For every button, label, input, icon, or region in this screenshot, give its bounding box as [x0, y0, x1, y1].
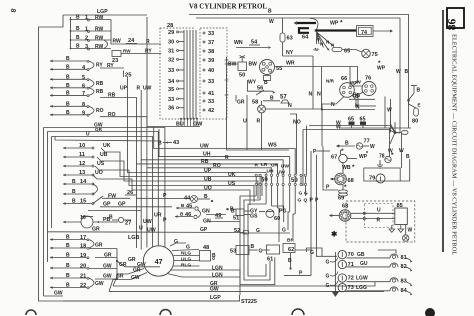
label row 11 — [79, 152, 85, 158]
svg-text:2: 2 — [85, 36, 88, 42]
component 78 — [379, 152, 394, 163]
wire NLG — [174, 251, 200, 257]
wire G 62 right — [295, 248, 322, 256]
svg-text:B: B — [72, 189, 76, 195]
svg-text:GS: GS — [250, 214, 258, 220]
component 77 — [336, 139, 375, 151]
wire row 14b — [63, 189, 94, 195]
svg-text:BW: BW — [249, 62, 258, 68]
label row 5 — [66, 74, 85, 81]
svg-text:N: N — [288, 103, 292, 109]
component 79 box — [364, 168, 400, 183]
svg-text:B: B — [66, 263, 70, 269]
svg-text:19: 19 — [80, 253, 86, 259]
label UP R UW verticals — [120, 86, 152, 92]
svg-text:WS: WS — [268, 143, 277, 149]
wire row RW 3 — [70, 48, 111, 50]
svg-text:G: G — [326, 283, 330, 289]
fuse left 35@88.8 — [168, 87, 184, 93]
svg-text:WY: WY — [248, 80, 257, 86]
component 46 — [175, 209, 211, 225]
component cap right — [402, 131, 409, 135]
wire GW 21 right — [95, 274, 117, 280]
wire LGP long — [63, 300, 240, 302]
fuse left 36@107.7 — [168, 106, 184, 112]
wire row 20 — [50, 267, 89, 270]
label U UW — [139, 213, 167, 234]
wire bus R2 — [141, 90, 283, 250]
svg-text:74: 74 — [361, 30, 367, 36]
svg-text:U: U — [243, 119, 247, 125]
fuse left 32@59.4 — [168, 57, 184, 63]
wire row 5 left — [50, 78, 89, 81]
svg-text:G: G — [282, 228, 286, 234]
sidebar vertical caption — [451, 34, 458, 255]
nest return 1 — [240, 196, 275, 285]
wire row RW 0 — [70, 19, 111, 21]
svg-text:B: B — [204, 194, 208, 200]
ground senders — [331, 291, 339, 297]
dashed box 85 — [346, 201, 415, 242]
label fuse 28 — [167, 23, 173, 29]
component 27 — [109, 215, 131, 227]
wire row 15 — [63, 199, 94, 205]
label row 18 — [66, 243, 86, 250]
svg-text:27: 27 — [125, 221, 131, 227]
svg-text:51: 51 — [233, 216, 239, 222]
wire fusebox bottom line — [147, 126, 200, 128]
fusebox bus v0 — [183, 30, 185, 119]
wire U bus left — [52, 132, 153, 247]
svg-text:B: B — [264, 80, 268, 86]
wire W line 2 — [303, 125, 395, 133]
component 68a — [330, 173, 354, 191]
svg-text:73: 73 — [348, 285, 354, 291]
svg-text:33: 33 — [208, 79, 214, 85]
wire bus UO — [93, 170, 250, 205]
label row 10 — [79, 143, 85, 149]
fuse right 41@93 — [203, 91, 214, 97]
svg-text:64: 64 — [302, 35, 309, 41]
svg-text:22: 22 — [80, 283, 86, 289]
component 53 — [230, 244, 270, 255]
component 57 — [280, 95, 289, 104]
svg-text:UR: UR — [271, 163, 278, 169]
fusebox left dashed box — [160, 28, 193, 119]
svg-text:39: 39 — [208, 58, 214, 64]
fuse right 33@101 — [203, 99, 214, 105]
svg-text:GR: GR — [95, 127, 103, 132]
label WP star 1 — [377, 60, 386, 72]
svg-text:21: 21 — [80, 274, 86, 280]
label row 13 — [79, 170, 85, 176]
svg-text:UR: UR — [154, 213, 162, 219]
fusebox bus v4 — [195, 30, 197, 119]
hump RO3 — [89, 106, 104, 115]
fusebox left outer vertical — [146, 17, 148, 127]
component 68b — [329, 204, 351, 222]
svg-text:31: 31 — [168, 49, 174, 55]
svg-text:11: 11 — [79, 152, 85, 158]
nest return 6 — [288, 212, 290, 230]
svg-text:34: 34 — [168, 79, 175, 85]
wire N bottom — [322, 104, 375, 110]
label row 19 — [66, 253, 86, 260]
wire B drop right — [408, 100, 410, 128]
wire P left 69 — [323, 147, 339, 191]
label RW 24 — [113, 38, 138, 45]
component 55 cap — [264, 76, 271, 87]
svg-text:B: B — [66, 253, 70, 259]
inner dashed U R — [364, 204, 393, 228]
label row RW 0 — [76, 15, 104, 22]
fuse right 42@110 — [203, 108, 214, 114]
svg-text:R: R — [257, 119, 261, 125]
bottom arc mark 2 — [160, 310, 171, 316]
label 59 pins top — [255, 162, 290, 176]
svg-text:LGW: LGW — [356, 276, 368, 282]
svg-text:LGB: LGB — [128, 235, 139, 241]
component 45 — [176, 203, 198, 210]
svg-text:75: 75 — [372, 52, 378, 58]
wire N vertical 3 — [317, 67, 322, 110]
wire RW collector — [111, 20, 161, 45]
hump RB2 — [89, 88, 104, 96]
svg-text:GW: GW — [95, 281, 104, 287]
svg-text:53: 53 — [230, 249, 236, 255]
svg-text:B: B — [76, 15, 80, 21]
wire P drop — [313, 149, 330, 155]
bottom-right dot — [425, 308, 435, 316]
svg-text:B: B — [76, 35, 80, 41]
ground arrow 2 — [398, 225, 404, 232]
svg-text:LR: LR — [261, 162, 268, 168]
connector 25 — [124, 71, 133, 79]
svg-text:8: 8 — [82, 102, 85, 108]
label WS — [268, 143, 277, 149]
svg-text:NY: NY — [286, 50, 294, 56]
svg-text:43: 43 — [173, 140, 179, 146]
label row 20 — [66, 263, 86, 270]
label asterisk — [331, 230, 338, 239]
svg-text:RW: RW — [123, 49, 131, 54]
svg-text:B: B — [66, 235, 70, 241]
svg-text:B: B — [66, 64, 70, 70]
wire row 11 — [63, 156, 94, 159]
svg-text:UW: UW — [200, 144, 209, 150]
label BU — [176, 122, 184, 128]
svg-text:UB: UB — [100, 152, 108, 158]
svg-text:B: B — [66, 101, 70, 107]
wire GW bottom-left — [44, 291, 64, 297]
label row 12 — [79, 161, 85, 167]
bottom arc mark 1 — [26, 310, 36, 315]
wire row 9 left — [50, 113, 89, 116]
component 85 box — [395, 203, 408, 225]
svg-text:WR: WR — [286, 61, 295, 67]
label row 6 — [66, 83, 85, 90]
svg-text:G: G — [310, 250, 314, 256]
wire GN lines — [206, 215, 240, 222]
label row a — [66, 56, 70, 62]
svg-text:U: U — [86, 132, 90, 138]
wire WS box — [225, 57, 262, 150]
component 51 — [231, 209, 250, 222]
fuse right 40@70 — [203, 68, 214, 74]
svg-text:RB: RB — [108, 93, 116, 99]
connector 26 — [125, 190, 136, 196]
svg-text:33: 33 — [168, 68, 174, 74]
wire 74 arrow — [373, 29, 393, 32]
svg-text:GR: GR — [116, 274, 124, 280]
svg-text:81: 81 — [401, 255, 407, 261]
sidebar rule — [442, 10, 444, 252]
svg-text:RO: RO — [96, 108, 104, 114]
svg-text:50: 50 — [239, 73, 245, 79]
svg-text:RLG: RLG — [181, 263, 191, 269]
wire bus UP — [128, 77, 267, 174]
svg-text:62: 62 — [288, 247, 294, 253]
wire 81 top feed — [378, 250, 396, 254]
svg-text:U: U — [139, 226, 143, 232]
svg-text:LGP: LGP — [210, 295, 221, 301]
label W B verticals — [396, 69, 409, 75]
svg-text:GW: GW — [103, 264, 112, 270]
sender hooks — [330, 258, 338, 286]
svg-text:B: B — [66, 83, 70, 89]
svg-text:R: R — [255, 163, 259, 169]
svg-text:RB: RB — [96, 81, 104, 87]
label row RW 2 — [76, 35, 104, 42]
svg-text:76: 76 — [365, 76, 371, 82]
svg-text:B: B — [66, 273, 70, 279]
label 59 left — [261, 178, 268, 184]
label row 17 — [66, 235, 86, 242]
svg-text:UW: UW — [143, 219, 152, 225]
wire B 57 — [263, 96, 280, 102]
wire bus RB — [100, 93, 278, 249]
hump 17-18 GR — [89, 240, 103, 249]
svg-text:1: 1 — [85, 15, 88, 21]
wire bus UH — [159, 129, 290, 174]
svg-text:10: 10 — [79, 143, 85, 149]
wire RY from 23 — [121, 49, 161, 55]
label W mid right — [387, 108, 392, 114]
fuse left 33@70 — [168, 68, 184, 74]
component 64 pivot — [302, 19, 318, 41]
corner mark top-left — [9, 8, 17, 13]
wire bus UW — [154, 127, 296, 175]
wire LGP top — [63, 14, 147, 16]
svg-text:R: R — [137, 86, 141, 92]
component 60 — [259, 209, 287, 222]
fuse left 33@98.8 — [168, 97, 184, 103]
bottom arc mark 3 — [292, 309, 304, 315]
svg-text:G: G — [186, 245, 190, 251]
wire LGN2 — [167, 272, 240, 278]
wire U to 85 — [351, 207, 395, 214]
wire U vertical — [243, 95, 247, 150]
svg-text:LGN: LGN — [212, 272, 223, 278]
svg-text:3: 3 — [85, 44, 88, 50]
label WB star — [342, 164, 355, 171]
svg-text:77: 77 — [364, 139, 370, 145]
svg-text:G: G — [298, 198, 302, 204]
svg-text:B: B — [270, 96, 274, 102]
svg-text:86: 86 — [447, 19, 459, 31]
fuse right 37@42 — [203, 40, 214, 46]
connector G pins — [300, 174, 307, 185]
svg-text:P: P — [163, 193, 167, 199]
svg-text:B: B — [355, 94, 359, 100]
lamp 81 — [390, 254, 413, 263]
svg-text:B: B — [231, 209, 235, 215]
sidebar page number 86 box — [447, 8, 465, 30]
lamp 84 — [390, 287, 413, 296]
wire 58 up — [261, 101, 263, 105]
component 66 — [326, 76, 362, 108]
wire GW 20 right — [89, 264, 117, 270]
wire lamp 82 — [347, 266, 391, 268]
svg-text:BW: BW — [228, 62, 237, 68]
svg-text:✱: ✱ — [331, 230, 338, 239]
label N fan — [313, 37, 335, 52]
svg-text:W: W — [370, 144, 375, 150]
svg-text:45: 45 — [186, 203, 192, 209]
svg-text:ULG: ULG — [181, 257, 191, 263]
wire NO drop 3 — [306, 126, 307, 197]
wire 67-68 vertical — [341, 150, 344, 173]
svg-text:GP: GP — [118, 202, 126, 208]
svg-text:83: 83 — [401, 279, 407, 285]
frame vertical 3 — [47, 132, 49, 263]
svg-text:33: 33 — [208, 31, 214, 37]
wire row 22 — [50, 286, 89, 289]
svg-text:WP: WP — [350, 80, 357, 85]
component 62 — [283, 238, 295, 254]
svg-text:US: US — [97, 161, 105, 167]
label LGP — [97, 9, 108, 15]
component 61 — [267, 245, 280, 263]
fuse right 33@81 — [203, 79, 214, 85]
svg-text:48: 48 — [203, 245, 209, 251]
svg-text:LGN: LGN — [212, 265, 223, 271]
svg-text:N: N — [331, 102, 335, 108]
wire BW left — [227, 63, 238, 65]
hump rows 2-3 — [104, 40, 108, 49]
svg-text:W: W — [269, 19, 274, 25]
wire WR — [275, 61, 358, 86]
hump GP diag — [93, 196, 111, 208]
svg-text:69: 69 — [338, 196, 344, 202]
label GW fuse — [193, 122, 203, 128]
svg-text:UP: UP — [120, 86, 128, 92]
hump 21-22 GW — [89, 278, 104, 288]
svg-text:GB: GB — [357, 252, 365, 258]
component 44 — [184, 194, 213, 203]
frame left vertical — [39, 15, 241, 301]
svg-text:UK: UK — [103, 143, 111, 149]
svg-text:G: G — [259, 249, 263, 255]
wire GR mid — [48, 227, 244, 233]
wire R to 85 — [351, 217, 395, 223]
svg-text:44: 44 — [184, 196, 191, 202]
svg-text:80: 80 — [412, 119, 418, 125]
sender G labels — [326, 260, 330, 290]
label GR mid — [92, 227, 100, 233]
svg-text:W: W — [387, 108, 392, 114]
fusebox bus v3 — [192, 30, 194, 119]
svg-text:GR: GR — [237, 100, 245, 106]
hump RY0 — [89, 61, 103, 69]
wire 59 pin returns — [256, 186, 295, 214]
wire FW right — [102, 197, 130, 199]
svg-text:ST225: ST225 — [241, 299, 257, 305]
fuse left 34@81 — [168, 79, 184, 85]
svg-text:B: B — [66, 243, 70, 249]
svg-text:GN: GN — [202, 209, 210, 215]
svg-text:GR: GR — [133, 268, 141, 274]
svg-text:33: 33 — [168, 97, 174, 103]
fuse right 33@33 — [203, 31, 214, 37]
wire row 13 — [63, 174, 94, 177]
svg-text:RW: RW — [95, 44, 104, 50]
wire GW bus left — [44, 123, 165, 248]
wire N-P vertical — [321, 110, 323, 147]
svg-text:47: 47 — [155, 259, 163, 266]
svg-text:UH: UH — [203, 152, 211, 158]
svg-text:58: 58 — [252, 100, 258, 106]
svg-text:GP: GP — [200, 227, 208, 233]
svg-text:UW: UW — [281, 164, 289, 170]
component 16 sender — [63, 215, 93, 228]
label LGB — [128, 235, 139, 241]
wire Q G — [170, 239, 186, 246]
svg-text:12: 12 — [79, 161, 85, 167]
wire B feed line — [55, 137, 161, 142]
wire row 4 left — [50, 68, 89, 71]
wire NO vertical — [290, 114, 301, 174]
component 74 box — [357, 26, 374, 37]
wire row RW 1 — [70, 30, 111, 32]
svg-text:WN: WN — [234, 40, 243, 46]
svg-text:46: 46 — [185, 212, 191, 218]
label WY — [248, 80, 257, 86]
svg-text:B: B — [406, 154, 410, 160]
component 65b pair — [348, 117, 366, 129]
lamp 82 — [390, 263, 413, 272]
svg-text:RB: RB — [201, 159, 209, 165]
svg-text:20: 20 — [80, 264, 86, 270]
wire RY right — [100, 63, 124, 69]
label row 7 — [66, 90, 85, 97]
svg-text:B: B — [345, 141, 349, 147]
label LGW — [356, 276, 368, 282]
svg-text:UK: UK — [228, 172, 236, 178]
svg-text:37: 37 — [208, 40, 214, 46]
svg-text:B: B — [251, 244, 255, 250]
svg-text:6: 6 — [82, 83, 85, 89]
svg-text:68: 68 — [342, 204, 348, 210]
component 73 — [338, 283, 354, 291]
wire 47 GR left — [113, 268, 144, 287]
svg-text:42: 42 — [208, 108, 214, 114]
svg-text:14: 14 — [80, 179, 87, 185]
svg-text:60: 60 — [274, 216, 280, 222]
label W W mid — [388, 148, 404, 155]
svg-text:B: B — [66, 74, 70, 80]
fusebox right dashed box — [200, 28, 227, 119]
